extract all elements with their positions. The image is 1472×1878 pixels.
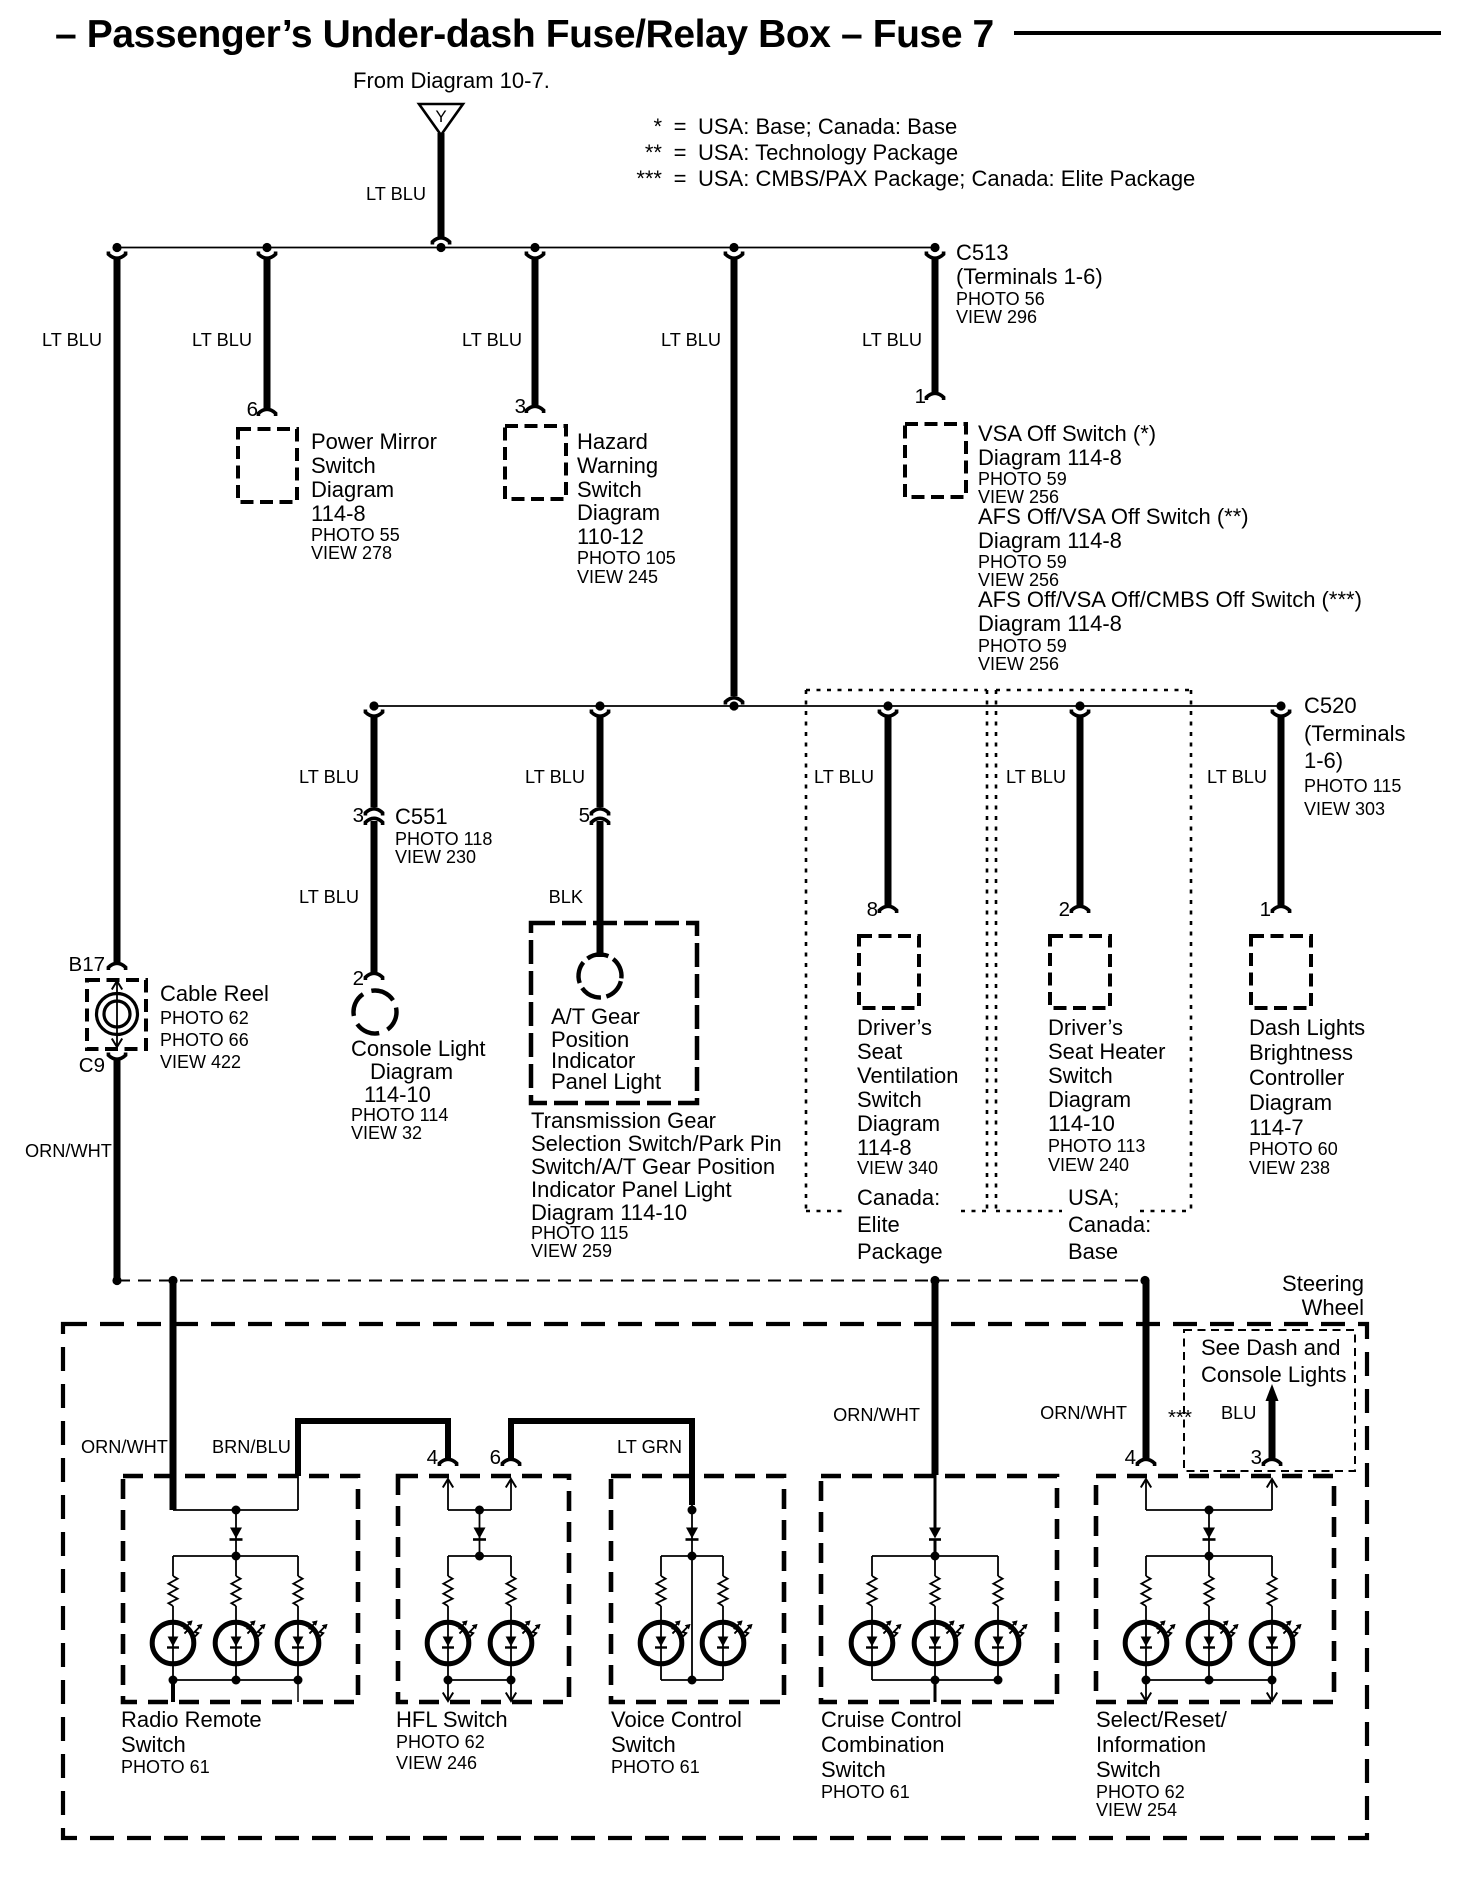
svg-text:PHOTO 118: PHOTO 118	[395, 829, 492, 849]
svg-text:VIEW 296: VIEW 296	[956, 307, 1037, 327]
svg-text:114-8: 114-8	[857, 1135, 912, 1160]
svg-text:2: 2	[1059, 898, 1070, 921]
svg-text:=: =	[674, 166, 687, 191]
svg-text:ORN/WHT: ORN/WHT	[25, 1141, 112, 1161]
svg-text:LT BLU: LT BLU	[366, 184, 426, 204]
svg-text:Select/Reset/: Select/Reset/	[1096, 1707, 1228, 1732]
svg-text:C551: C551	[395, 804, 448, 829]
svg-text:LT BLU: LT BLU	[299, 887, 359, 907]
svg-text:ORN/WHT: ORN/WHT	[1040, 1403, 1127, 1423]
svg-text:See Dash and: See Dash and	[1201, 1335, 1340, 1360]
svg-text:Diagram 114-8: Diagram 114-8	[978, 611, 1122, 636]
svg-text:3: 3	[1251, 1446, 1262, 1469]
svg-text:PHOTO 59: PHOTO 59	[978, 552, 1067, 572]
svg-text:PHOTO 61: PHOTO 61	[121, 1757, 210, 1777]
svg-text:3: 3	[515, 395, 526, 418]
svg-text:C520: C520	[1304, 693, 1357, 718]
svg-text:*: *	[653, 114, 662, 139]
svg-text:PHOTO 61: PHOTO 61	[821, 1782, 910, 1802]
svg-text:Y: Y	[435, 107, 446, 126]
svg-text:4: 4	[427, 1446, 438, 1469]
svg-text:PHOTO 62: PHOTO 62	[396, 1732, 485, 1752]
svg-text:Ventilation: Ventilation	[857, 1063, 959, 1088]
svg-text:Switch: Switch	[1096, 1757, 1161, 1782]
svg-text:Selection Switch/Park Pin: Selection Switch/Park Pin	[531, 1131, 782, 1156]
svg-text:114-10: 114-10	[364, 1082, 431, 1107]
svg-text:Console Light: Console Light	[351, 1036, 486, 1061]
svg-text:C9: C9	[79, 1054, 105, 1077]
svg-text:C513: C513	[956, 240, 1009, 265]
svg-text:Information: Information	[1096, 1732, 1206, 1757]
svg-text:1: 1	[915, 385, 926, 408]
svg-text:Canada:: Canada:	[1068, 1212, 1151, 1237]
svg-text:BRN/BLU: BRN/BLU	[212, 1437, 291, 1457]
svg-text:1-6): 1-6)	[1304, 748, 1343, 773]
svg-text:6: 6	[490, 1446, 501, 1469]
svg-text:Driver’s: Driver’s	[1048, 1015, 1123, 1040]
svg-text:LT BLU: LT BLU	[1207, 767, 1267, 787]
svg-text:PHOTO 66: PHOTO 66	[160, 1030, 249, 1050]
svg-text:8: 8	[867, 898, 878, 921]
svg-text:Diagram: Diagram	[1048, 1087, 1131, 1112]
svg-text:PHOTO 56: PHOTO 56	[956, 289, 1045, 309]
svg-text:LT BLU: LT BLU	[299, 767, 359, 787]
svg-text:VIEW 238: VIEW 238	[1249, 1158, 1330, 1178]
svg-text:PHOTO 105: PHOTO 105	[577, 548, 676, 568]
svg-text:1: 1	[1260, 898, 1271, 921]
svg-text:PHOTO 59: PHOTO 59	[978, 636, 1067, 656]
svg-text:Console Lights: Console Lights	[1201, 1362, 1347, 1387]
svg-text:LT BLU: LT BLU	[1006, 767, 1066, 787]
svg-text:VIEW 259: VIEW 259	[531, 1241, 612, 1261]
svg-text:A/T Gear: A/T Gear	[551, 1004, 640, 1029]
svg-text:AFS Off/VSA Off Switch (**): AFS Off/VSA Off Switch (**)	[978, 504, 1249, 529]
svg-text:5: 5	[579, 804, 590, 827]
svg-text:Package: Package	[857, 1239, 943, 1264]
svg-text:Diagram: Diagram	[311, 477, 394, 502]
svg-text:Transmission Gear: Transmission Gear	[531, 1108, 716, 1133]
svg-text:VIEW 303: VIEW 303	[1304, 799, 1385, 819]
svg-text:6: 6	[247, 398, 258, 421]
svg-text:AFS Off/VSA Off/CMBS Off Switc: AFS Off/VSA Off/CMBS Off Switch (***)	[978, 587, 1362, 612]
svg-text:ORN/WHT: ORN/WHT	[81, 1437, 168, 1457]
svg-text:PHOTO 113: PHOTO 113	[1048, 1136, 1145, 1156]
svg-text:Cable Reel: Cable Reel	[160, 981, 269, 1006]
svg-text:Switch: Switch	[121, 1732, 186, 1757]
svg-text:LT BLU: LT BLU	[42, 330, 102, 350]
svg-text:PHOTO 115: PHOTO 115	[1304, 776, 1401, 796]
svg-text:Voice Control: Voice Control	[611, 1707, 742, 1732]
svg-text:Seat: Seat	[857, 1039, 902, 1064]
svg-text:(Terminals: (Terminals	[1304, 721, 1405, 746]
svg-text:B17: B17	[69, 953, 105, 976]
svg-text:Diagram: Diagram	[370, 1059, 453, 1084]
svg-text:Dash Lights: Dash Lights	[1249, 1015, 1365, 1040]
svg-text:VIEW 240: VIEW 240	[1048, 1155, 1129, 1175]
svg-text:– Passenger’s Under-dash Fuse/: – Passenger’s Under-dash Fuse/Relay Box …	[55, 13, 994, 56]
svg-text:VIEW 245: VIEW 245	[577, 567, 658, 587]
svg-text:Driver’s: Driver’s	[857, 1015, 932, 1040]
svg-text:114-7: 114-7	[1249, 1115, 1304, 1140]
svg-text:Diagram 114-10: Diagram 114-10	[531, 1200, 687, 1225]
svg-text:Radio Remote: Radio Remote	[121, 1707, 262, 1732]
svg-text:Diagram: Diagram	[577, 500, 660, 525]
svg-text:Switch: Switch	[1048, 1063, 1113, 1088]
svg-text:PHOTO 62: PHOTO 62	[160, 1008, 249, 1028]
svg-text:USA;: USA;	[1068, 1185, 1119, 1210]
svg-text:114-8: 114-8	[311, 501, 366, 526]
svg-text:Seat Heater: Seat Heater	[1048, 1039, 1165, 1064]
svg-text:LT BLU: LT BLU	[661, 330, 721, 350]
svg-text:Diagram 114-8: Diagram 114-8	[978, 445, 1122, 470]
svg-text:VIEW 422: VIEW 422	[160, 1052, 241, 1072]
svg-text:ORN/WHT: ORN/WHT	[833, 1405, 920, 1425]
svg-text:Switch: Switch	[857, 1087, 922, 1112]
svg-text:PHOTO 62: PHOTO 62	[1096, 1782, 1185, 1802]
svg-text:***: ***	[636, 166, 662, 191]
svg-text:VIEW 256: VIEW 256	[978, 654, 1059, 674]
svg-text:Switch: Switch	[611, 1732, 676, 1757]
svg-text:3: 3	[353, 804, 364, 827]
svg-text:LT BLU: LT BLU	[525, 767, 585, 787]
svg-text:Switch/A/T Gear Position: Switch/A/T Gear Position	[531, 1154, 775, 1179]
svg-text:Steering: Steering	[1282, 1271, 1364, 1296]
svg-text:Elite: Elite	[857, 1212, 900, 1237]
svg-text:4: 4	[1125, 1446, 1136, 1469]
svg-text:VIEW 32: VIEW 32	[351, 1123, 422, 1143]
svg-text:***: ***	[1168, 1406, 1192, 1429]
svg-text:Power Mirror: Power Mirror	[311, 429, 437, 454]
svg-text:2: 2	[353, 967, 364, 990]
svg-text:Switch: Switch	[311, 453, 376, 478]
svg-text:Panel Light: Panel Light	[551, 1069, 661, 1094]
svg-text:LT BLU: LT BLU	[192, 330, 252, 350]
svg-text:PHOTO 55: PHOTO 55	[311, 525, 400, 545]
svg-text:Diagram: Diagram	[1249, 1090, 1332, 1115]
svg-text:Brightness: Brightness	[1249, 1040, 1353, 1065]
svg-text:LT GRN: LT GRN	[617, 1437, 682, 1457]
svg-text:Diagram: Diagram	[857, 1111, 940, 1136]
svg-text:LT BLU: LT BLU	[814, 767, 874, 787]
svg-text:Warning: Warning	[577, 453, 658, 478]
svg-text:Switch: Switch	[577, 477, 642, 502]
svg-text:HFL Switch: HFL Switch	[396, 1707, 508, 1732]
svg-text:USA: Base; Canada: Base: USA: Base; Canada: Base	[698, 114, 957, 139]
svg-text:PHOTO 115: PHOTO 115	[531, 1223, 628, 1243]
svg-text:Indicator Panel Light: Indicator Panel Light	[531, 1177, 732, 1202]
svg-text:Controller: Controller	[1249, 1065, 1344, 1090]
svg-text:USA: Technology Package: USA: Technology Package	[698, 140, 958, 165]
svg-text:Wheel: Wheel	[1302, 1295, 1364, 1320]
svg-text:BLK: BLK	[549, 887, 583, 907]
svg-text:Combination: Combination	[821, 1732, 945, 1757]
svg-text:**: **	[645, 140, 663, 165]
svg-text:VIEW 254: VIEW 254	[1096, 1800, 1177, 1820]
svg-text:Canada:: Canada:	[857, 1185, 940, 1210]
svg-text:VIEW 278: VIEW 278	[311, 543, 392, 563]
svg-text:VSA Off Switch (*): VSA Off Switch (*)	[978, 421, 1156, 446]
svg-text:BLU: BLU	[1221, 1403, 1256, 1423]
svg-text:LT BLU: LT BLU	[862, 330, 922, 350]
svg-text:(Terminals 1-6): (Terminals 1-6)	[956, 264, 1103, 289]
svg-text:Diagram 114-8: Diagram 114-8	[978, 528, 1122, 553]
svg-text:PHOTO 61: PHOTO 61	[611, 1757, 700, 1777]
svg-text:VIEW 230: VIEW 230	[395, 847, 476, 867]
svg-text:From Diagram 10-7.: From Diagram 10-7.	[353, 68, 550, 93]
svg-text:110-12: 110-12	[577, 524, 644, 549]
svg-text:=: =	[674, 114, 687, 139]
svg-text:PHOTO 59: PHOTO 59	[978, 469, 1067, 489]
svg-text:Switch: Switch	[821, 1757, 886, 1782]
svg-text:PHOTO 114: PHOTO 114	[351, 1105, 448, 1125]
svg-text:114-10: 114-10	[1048, 1111, 1115, 1136]
svg-text:Hazard: Hazard	[577, 429, 648, 454]
svg-text:LT BLU: LT BLU	[462, 330, 522, 350]
svg-text:USA: CMBS/PAX Package; Canada:: USA: CMBS/PAX Package; Canada: Elite Pac…	[698, 166, 1195, 191]
svg-text:VIEW 246: VIEW 246	[396, 1753, 477, 1773]
svg-text:=: =	[674, 140, 687, 165]
svg-text:PHOTO 60: PHOTO 60	[1249, 1139, 1338, 1159]
svg-text:Base: Base	[1068, 1239, 1118, 1264]
svg-text:Cruise Control: Cruise Control	[821, 1707, 962, 1732]
svg-text:VIEW 340: VIEW 340	[857, 1158, 938, 1178]
